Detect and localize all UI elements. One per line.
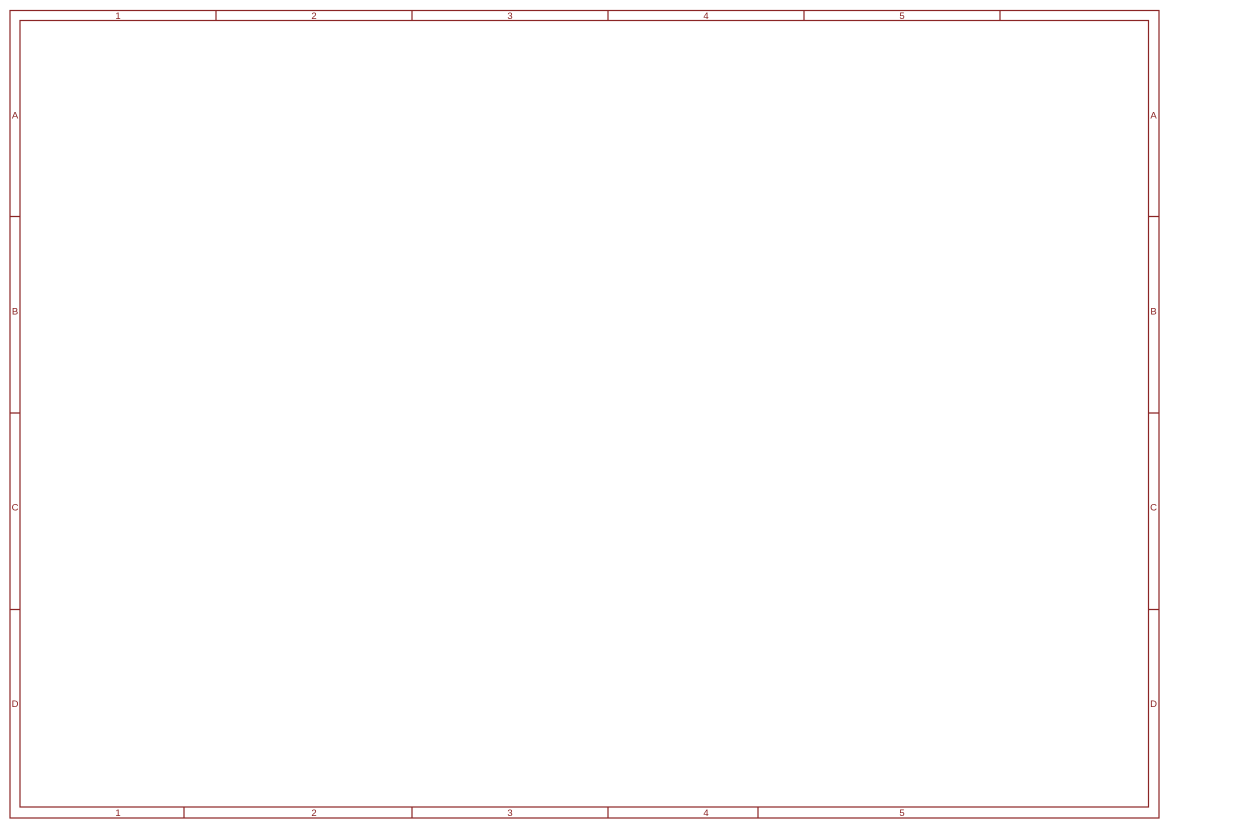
- svg-text:2: 2: [311, 808, 316, 819]
- svg-text:1: 1: [115, 11, 120, 22]
- frame column numbers top: [115, 11, 904, 22]
- svg-text:4: 4: [703, 11, 708, 22]
- frame row letters right: [1150, 111, 1157, 711]
- svg-text:C: C: [12, 503, 19, 514]
- svg-text:B: B: [12, 307, 18, 318]
- svg-text:4: 4: [703, 808, 708, 819]
- svg-text:C: C: [1150, 503, 1157, 514]
- frame row letters left: [12, 111, 19, 711]
- svg-text:3: 3: [507, 11, 512, 22]
- frame column ticks bottom: [184, 807, 758, 818]
- svg-text:5: 5: [899, 11, 904, 22]
- svg-text:3: 3: [507, 808, 512, 819]
- svg-text:D: D: [1150, 699, 1157, 710]
- frame row ticks right: [1149, 217, 1160, 610]
- frame row ticks left: [10, 217, 20, 610]
- frame column ticks top: [216, 11, 1000, 21]
- svg-text:A: A: [12, 111, 19, 122]
- svg-text:2: 2: [311, 11, 316, 22]
- svg-text:5: 5: [899, 808, 904, 819]
- svg-text:B: B: [1150, 307, 1156, 318]
- frame column numbers bottom: [115, 808, 904, 819]
- svg-text:D: D: [12, 699, 19, 710]
- svg-text:1: 1: [115, 808, 120, 819]
- svg-text:A: A: [1150, 111, 1157, 122]
